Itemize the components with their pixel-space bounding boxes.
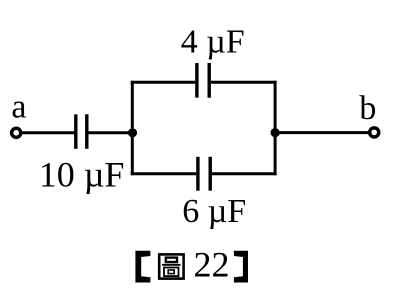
value label 10 uF — [39, 154, 125, 194]
wire — [275, 131, 369, 134]
wire — [22, 131, 75, 134]
svg-text:a: a — [11, 89, 26, 126]
svg-text:22: 22 — [194, 245, 230, 285]
capacitor C2 4 uF plates — [197, 63, 209, 98]
value label 6 uF — [182, 193, 246, 230]
capacitor C3 6 uF plates — [198, 157, 210, 191]
capacitor C1 10 uF plates — [76, 114, 87, 149]
caption character tu (figure) — [159, 254, 183, 278]
value label 4 uF — [181, 23, 245, 60]
wire top side right segment — [211, 81, 277, 84]
svg-text:b: b — [359, 90, 376, 127]
caption left bracket — [135, 251, 150, 283]
caption right bracket — [234, 251, 248, 283]
svg-text:6 µF: 6 µF — [182, 193, 246, 230]
wire top side left segment — [131, 81, 195, 84]
wire bottom side right segment — [212, 172, 277, 175]
svg-text:10 µF: 10 µF — [39, 154, 125, 194]
terminal a — [12, 128, 21, 137]
label b — [359, 90, 376, 127]
svg-text:4 µF: 4 µF — [181, 23, 245, 60]
wire — [89, 131, 133, 134]
wire bottom side left segment — [131, 172, 196, 175]
wire left vertical of loop — [131, 81, 134, 176]
node left junction — [128, 128, 137, 137]
label a — [11, 89, 26, 126]
terminal b — [370, 128, 379, 137]
caption number 22 — [194, 245, 230, 285]
wire right vertical of loop — [274, 81, 277, 176]
node right junction — [271, 128, 280, 137]
